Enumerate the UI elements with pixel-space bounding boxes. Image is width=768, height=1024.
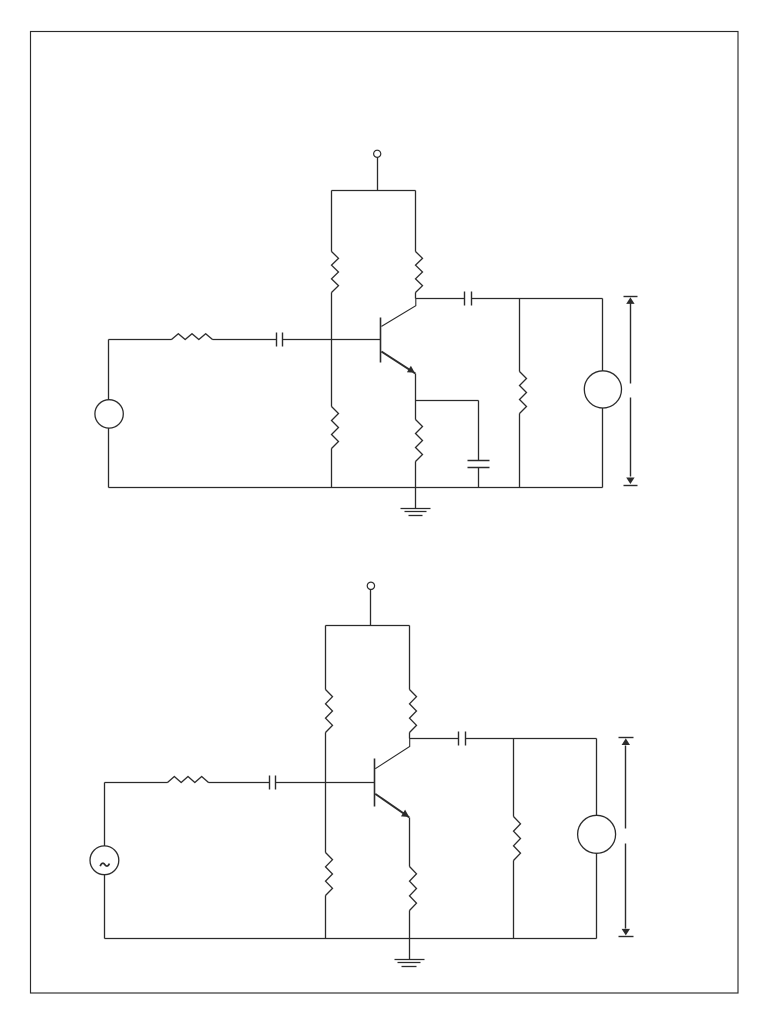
wire R12 to ground rail (bottom circuit) [513,861,515,939]
wire input top to source V2 (bottom circuit) [104,783,106,846]
wire input top to source V1 (top circuit) [108,340,110,400]
wire base node to R2 (top circuit) [331,340,333,407]
wire R6 to ground rail (top circuit) [519,414,521,488]
wire base node to R8 (bottom circuit) [325,783,327,853]
transistor Q1 collector lead [382,298,416,326]
resistor R9 collector (bottom circuit) [410,690,417,733]
ground (top circuit) [401,509,431,516]
wire R7 to base node (bottom circuit) [325,733,327,783]
resistor R7 bias upper (bottom circuit) [326,690,333,733]
resistor R11 emitter (bottom circuit) [410,867,417,911]
wire C3 to ground rail (top circuit) [478,468,480,488]
resistor R5 emitter (top circuit) [416,420,423,462]
terminal VCC (top circuit) [374,150,381,157]
terminal VCC (bottom circuit) [367,582,374,589]
wire rail to R9 (bottom circuit) [409,626,411,690]
wire ground rail (bottom circuit) [105,938,597,940]
wire rail to R7 (bottom circuit) [325,626,327,690]
resistor R1 bias upper (top circuit) [332,252,339,293]
wire output node to R12 (bottom circuit) [513,739,515,817]
wire output to meter M2 (bottom circuit) [596,739,598,816]
resistor R6 load (top circuit) [520,372,527,414]
wire R4 to C1 (top circuit) [213,339,277,341]
wire C4 to base (bottom circuit) [276,782,375,784]
capacitor C3 emitter bypass (top circuit) [468,461,490,468]
wire VCC stub (bottom circuit) [370,590,372,626]
wire R11 to ground rail (bottom circuit) [409,911,411,939]
wire source V1 to ground rail (top circuit) [108,429,110,488]
ground (bottom circuit) [395,960,425,967]
source V1 (top circuit) [95,400,123,428]
transistor Q1 base bar [380,318,382,363]
wire VCC stub (top circuit) [377,158,379,191]
wire source V2 to ground rail (bottom circuit) [104,875,106,939]
wire emitter to R11 (bottom circuit) [409,818,411,867]
capacitor C2 output coupling (top circuit) [465,292,472,306]
wire node to C3 (top circuit) [478,401,480,461]
wire collector node to C5 (bottom circuit) [410,738,459,740]
capacitor C4 input coupling (bottom circuit) [270,776,276,790]
source V2 AC (bottom circuit) [90,846,119,875]
dimension arrow Vout (top circuit) [624,297,638,486]
wire R2 to ground rail (top circuit) [331,449,333,488]
wire C5 to output node (bottom circuit) [466,738,597,740]
wire C1 to base (top circuit) [283,339,381,341]
wire meter M1 to ground rail (top circuit) [602,409,604,488]
wire source to R4 (top circuit) [109,339,172,341]
wire rail to R3 (top circuit) [415,191,417,252]
transistor Q2 base bar [374,759,376,807]
wire R9 to collector node (bottom circuit) [409,733,411,739]
wire C2 to output node (top circuit) [472,298,603,300]
wire collector node to C2 (top circuit) [416,298,465,300]
meter M2 output (bottom circuit) [578,815,616,853]
wire meter M2 to ground rail (bottom circuit) [596,854,598,939]
wire R5 to ground rail (top circuit) [415,462,417,488]
wire R1 to base node (top circuit) [331,293,333,340]
resistor R10 series input (bottom circuit) [168,777,209,783]
wire ground rail (top circuit) [109,487,603,489]
wire emitter to node (top circuit) [415,374,417,401]
wire R3 to collector node (top circuit) [415,293,417,299]
wire top supply rail (top circuit) [332,190,416,192]
capacitor C1 input coupling (top circuit) [277,333,283,347]
transistor Q2 emitter arrowhead [401,810,409,817]
wire rail to R1 (top circuit) [331,191,333,252]
transistor Q2 emitter lead [375,794,409,817]
wire top supply rail (bottom circuit) [326,625,410,627]
meter M1 output (top circuit) [584,371,621,408]
resistor R12 load (bottom circuit) [514,817,521,861]
wire source to R10 (bottom circuit) [105,782,168,784]
transistor Q2 collector lead [375,738,409,769]
resistor R4 series input (top circuit) [172,334,213,340]
wire output node to R6 (top circuit) [519,299,521,372]
wire R8 to ground rail (bottom circuit) [325,896,327,939]
resistor R3 collector (top circuit) [416,252,423,293]
wire emitter node to R5 (top circuit) [415,401,417,420]
wire output to meter M1 (top circuit) [602,299,604,371]
dimension arrow Vout (bottom circuit) [619,738,634,937]
wire R10 to C4 (bottom circuit) [209,782,270,784]
resistor R8 bias lower (bottom circuit) [326,853,333,896]
wire ground stub (bottom circuit) [409,939,411,960]
wire emitter node to C3 branch (top circuit) [416,400,479,402]
transistor Q1 emitter lead [382,352,416,374]
resistor R2 bias lower (top circuit) [332,407,339,449]
source V2 tilde symbol [100,863,109,866]
transistor Q1 emitter arrowhead [407,366,415,373]
capacitor C5 output coupling (bottom circuit) [459,732,466,746]
wire ground stub (top circuit) [415,488,417,509]
